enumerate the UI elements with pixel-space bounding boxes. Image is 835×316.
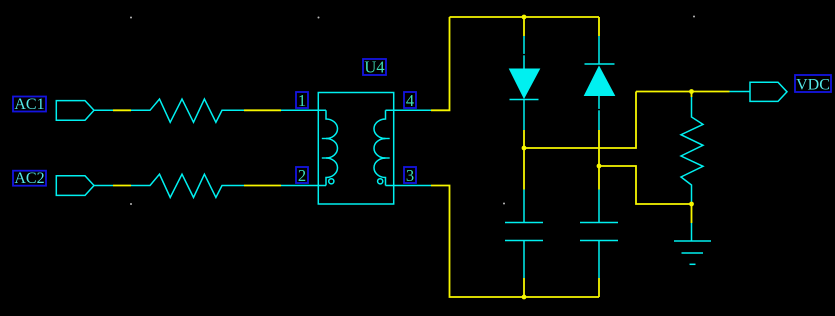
svg-text:4: 4 [406,91,414,110]
svg-text:1: 1 [298,91,306,110]
wire D1 to C1 [523,130,525,190]
transformer secondary winding [374,110,386,185]
port AC2 [56,176,94,196]
resistor R3 (load) [681,97,703,204]
wire C2 to bottom rail [598,278,600,297]
wire mid horizontal to VDC riser [524,92,636,149]
transformer U4 body [318,93,393,205]
pin lead of port AC2 [94,185,113,187]
port VDC [750,82,787,101]
label U4 [363,57,386,76]
junction D2 / wire to ground net [597,164,602,169]
diode D2 (cathode up) [585,36,615,130]
pin number 3 [404,166,416,185]
grid dot (131,204) [130,203,132,205]
pin lead of port AC1 [94,109,113,111]
wire top rail [450,16,600,18]
junction R3 bottom / ground [689,202,694,207]
wire R1 to transformer pin 1 [244,109,281,111]
port AC1 [56,101,94,121]
pin lead of port VDC [730,91,751,93]
label VDC [795,75,831,93]
grid dot (504,204) [503,203,505,205]
grid dot (694,17) [693,16,695,18]
svg-text:3: 3 [406,166,414,185]
capacitor C2 [580,190,618,279]
transformer primary winding [326,110,338,185]
wire pin4 to left riser [431,17,450,110]
resistor R2 (AC2 series) [131,174,244,197]
wire pin3 to bottom rail [431,186,599,298]
junction bottom rail / C1 [522,295,527,300]
wire VDC rail [636,91,730,93]
junction VDC / R3 top [689,89,694,94]
primary polarity dot [329,179,334,184]
diode D1 (cathode down) [510,36,540,130]
junction D1 / mid wire [522,146,527,151]
label AC1 [13,96,46,113]
svg-text:2: 2 [298,166,306,185]
transformer pin 2 stub [281,185,326,187]
grid dot (318,17) [318,17,320,19]
svg-text:AC2: AC2 [14,170,44,187]
wire AC1 port to R1 [113,109,131,111]
resistor R1 (AC1 series) [131,99,244,122]
wire top rail to D2 [598,17,600,36]
wire AC2 port to R2 [113,185,131,187]
wire R3 bottom to ground [691,204,693,223]
pin number 2 [296,166,308,185]
svg-text:U4: U4 [364,57,384,76]
transformer pin 4 stub [386,109,432,111]
wire top rail to D1 [523,17,525,36]
wire C1 to bottom rail [523,278,525,297]
pin number 1 [296,91,308,110]
capacitor C1 [505,190,543,279]
ground [674,223,711,264]
label AC2 [13,170,46,187]
transformer pin 1 stub [281,109,326,111]
junction top rail / D1 [522,15,527,20]
pin number 4 [404,91,416,110]
svg-text:VDC: VDC [796,76,830,93]
transformer pin 3 stub [386,185,432,187]
grid dot (131,17) [130,17,132,19]
wire D2 to C2 [598,130,600,190]
secondary polarity dot [378,179,383,184]
wire R2 to transformer pin 2 [244,185,281,187]
svg-text:AC1: AC1 [14,96,44,113]
wire R3 top stub [691,92,693,98]
wire D2 junction to ground net [599,166,692,204]
